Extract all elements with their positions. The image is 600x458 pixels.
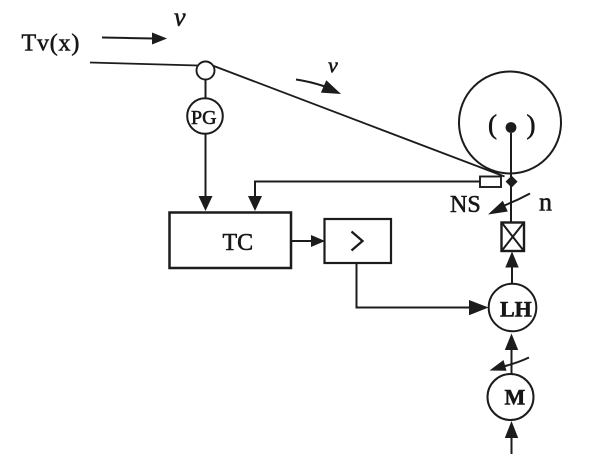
svg-text:M: M — [505, 385, 526, 410]
svg-text:Tv(x): Tv(x) — [22, 31, 81, 57]
svg-text:NS: NS — [450, 192, 481, 218]
svg-text:n: n — [539, 188, 552, 217]
svg-text:v: v — [174, 3, 186, 32]
svg-text:LH: LH — [500, 297, 532, 322]
svg-text:(: ( — [488, 110, 497, 140]
svg-text:PG: PG — [191, 107, 217, 129]
svg-text:TC: TC — [223, 230, 254, 256]
svg-text:): ) — [527, 110, 536, 140]
svg-text:v: v — [328, 53, 338, 78]
